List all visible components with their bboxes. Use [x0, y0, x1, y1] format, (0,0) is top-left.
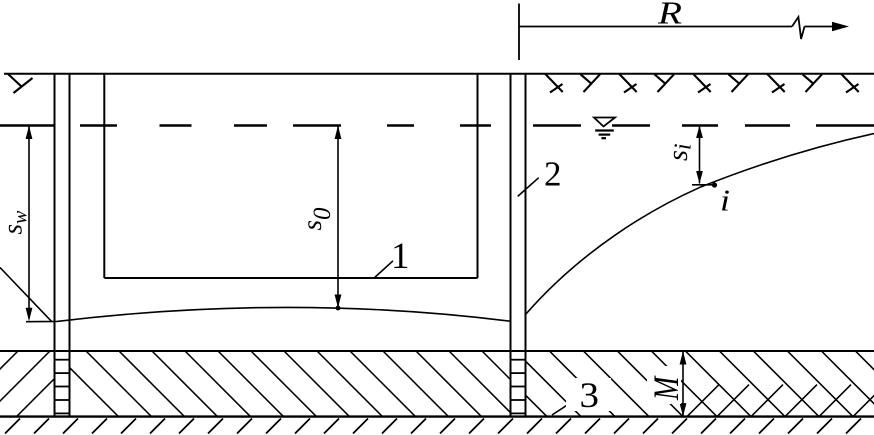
svg-text:2: 2 — [544, 154, 562, 193]
svg-text:1: 1 — [391, 236, 410, 277]
svg-text:3: 3 — [580, 375, 600, 415]
svg-text:R: R — [657, 0, 683, 31]
svg-text:M: M — [647, 375, 687, 401]
svg-text:i: i — [720, 183, 730, 218]
